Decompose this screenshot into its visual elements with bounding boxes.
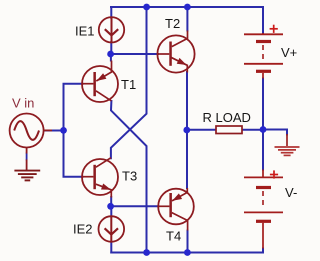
wire node A to T2 base xyxy=(111,53,158,55)
svg-text:IE1: IE1 xyxy=(75,24,95,39)
junction top rail right xyxy=(184,4,191,11)
wire T1 emitter lead xyxy=(110,54,112,61)
wire base node to T1 base xyxy=(64,84,83,131)
current source IE1 xyxy=(99,17,124,42)
wire V- battery bottom corner xyxy=(262,249,264,253)
transistor T2 xyxy=(157,31,194,73)
wire T2 emitter to output node xyxy=(186,72,188,130)
svg-text:T2: T2 xyxy=(165,16,180,31)
wire gnd branch right xyxy=(263,130,287,135)
wire IE1 bottom lead xyxy=(110,42,112,54)
wire IE1 top lead xyxy=(110,7,112,18)
junction node A xyxy=(107,51,114,58)
plus sign V+ xyxy=(270,25,278,33)
junction bottom rail right xyxy=(184,249,191,256)
battery V- xyxy=(244,170,283,249)
wire node B to T4 base xyxy=(111,205,159,207)
svg-text:R LOAD: R LOAD xyxy=(203,110,251,125)
junction node B xyxy=(107,203,114,210)
svg-text:IE2: IE2 xyxy=(73,222,93,237)
svg-text:V in: V in xyxy=(12,96,34,111)
svg-text:V+: V+ xyxy=(281,45,297,60)
wire T3 emitter lead xyxy=(110,197,112,206)
wire top rail V+ xyxy=(111,6,263,8)
svg-text:T3: T3 xyxy=(122,169,137,184)
wire output node to R LOAD xyxy=(187,129,216,131)
junction bottom rail left xyxy=(143,249,150,256)
wire R LOAD to gnd node xyxy=(242,129,263,131)
plus sign V- xyxy=(270,170,278,178)
wire V in gnd stub xyxy=(26,154,28,160)
battery V+ xyxy=(244,33,283,79)
ground (V in) xyxy=(14,171,40,181)
wire V in to base node xyxy=(44,130,64,132)
wire T2 collector lead xyxy=(186,7,188,31)
current source IE2 xyxy=(99,216,125,242)
ground (right, load return) xyxy=(275,134,300,155)
junction top rail left xyxy=(143,4,150,11)
transistor T4 xyxy=(158,188,194,231)
svg-text:T1: T1 xyxy=(121,77,136,92)
wire V- battery top lead xyxy=(262,130,264,170)
wire V+ rail to T3 collector (cross) xyxy=(111,7,147,158)
wire V+ battery top lead xyxy=(262,7,264,33)
wire T4 collector lead xyxy=(187,231,189,253)
wire base node to T3 base xyxy=(64,131,83,177)
wire IE2 top lead xyxy=(110,206,112,216)
wire bottom rail V- xyxy=(111,252,263,254)
resistor R LOAD xyxy=(216,126,242,134)
junction output node xyxy=(183,127,190,134)
AC source V in xyxy=(10,114,52,171)
wire T1 collector to V- rail (cross) xyxy=(111,101,147,253)
transistor T3 xyxy=(82,158,118,198)
svg-text:T4: T4 xyxy=(166,229,181,244)
wire T4 emitter lead xyxy=(186,130,188,188)
junction V in base node xyxy=(60,127,67,134)
transistor T1 xyxy=(82,61,118,103)
svg-text:V-: V- xyxy=(285,185,297,200)
wire IE2 bottom lead xyxy=(110,242,112,253)
junction gnd node xyxy=(260,126,267,133)
wire V+ battery bottom to gnd node xyxy=(262,79,264,130)
